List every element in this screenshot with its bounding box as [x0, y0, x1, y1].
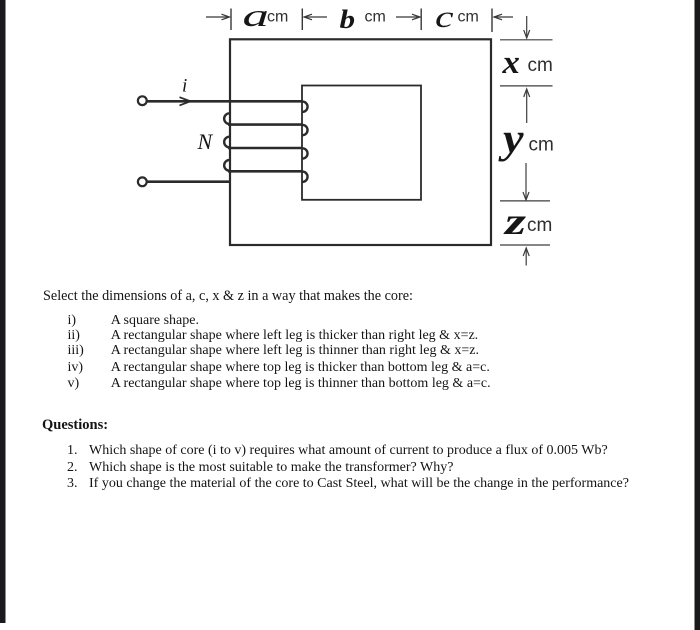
svg-text:cm: cm	[527, 215, 552, 236]
svg-text:cm: cm	[267, 9, 288, 26]
svg-text:cm: cm	[528, 55, 553, 76]
svg-text:b: b	[340, 5, 356, 34]
svg-text:a: a	[243, 0, 269, 34]
svg-text:c: c	[435, 0, 454, 34]
svg-text:x: x	[501, 45, 519, 81]
svg-text:cm: cm	[529, 135, 554, 156]
svg-text:cm: cm	[458, 9, 479, 26]
svg-text:z: z	[503, 201, 526, 243]
svg-text:i: i	[182, 76, 187, 97]
svg-text:y: y	[498, 115, 524, 162]
svg-text:cm: cm	[365, 9, 386, 26]
svg-text:N: N	[197, 129, 214, 154]
